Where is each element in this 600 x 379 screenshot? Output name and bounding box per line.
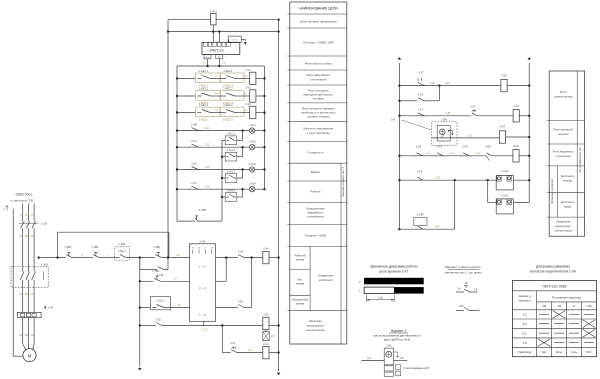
svg-text:Положение рукоятки: Положение рукоятки xyxy=(552,296,581,300)
wire block2 to rail xyxy=(513,202,529,204)
svg-text:Звуковая: Звуковая xyxy=(309,319,322,323)
rung5 wire xyxy=(399,155,483,157)
svg-text:1-КК: 1-КК xyxy=(48,306,54,310)
svg-text:назад: назад xyxy=(564,206,572,209)
svg-text:Цепи питания напряжения: Цепи питания напряжения xyxy=(300,20,337,24)
svg-text:Готовность: Готовность xyxy=(307,151,323,155)
wire control tap riser xyxy=(57,232,59,257)
contact 1-SQ1.1 xyxy=(117,255,128,258)
table2 narrow right column xyxy=(576,71,578,236)
boxed contact SA2 branch xyxy=(222,156,225,158)
svg-text:2-К1: 2-К1 xyxy=(191,139,197,143)
relay coil 2-K6 xyxy=(501,79,507,91)
svg-text:2-К4: 2-К4 xyxy=(238,249,244,253)
impulse contact 2-KT1 xyxy=(415,83,427,86)
table2 left rotated divider xyxy=(556,166,558,217)
svg-text:2-SQ3.2: 2-SQ3.2 xyxy=(223,118,234,122)
svg-text:2-К1: 2-К1 xyxy=(245,68,251,72)
svg-text:режим: режим xyxy=(296,258,305,262)
closure cell r3c4 cross xyxy=(583,329,596,337)
relay coil 2-K7 xyxy=(513,110,519,122)
selector contact 2-SB4 row xyxy=(177,220,193,222)
svg-text:2-НА: 2-НА xyxy=(263,342,269,346)
sensor output elbow with arrow xyxy=(449,130,453,132)
sensor unit 2-VK dashed box xyxy=(432,122,458,146)
wire xyxy=(164,257,190,259)
closure cell r2c3 dash xyxy=(569,323,579,325)
indicator lamp 1-HL2 xyxy=(250,145,255,150)
svg-text:2-21: 2-21 xyxy=(430,83,435,85)
switch 1-SQ1 dashed box xyxy=(115,247,130,261)
svg-text:2-SА1.1: 2-SА1.1 xyxy=(227,133,236,136)
svg-text:2-ВК: 2-ВК xyxy=(441,118,447,122)
svg-text:в цепи дробилки: в цепи дробилки xyxy=(307,131,330,135)
svg-text:2-SВ7: 2-SВ7 xyxy=(417,213,425,217)
svg-text:2-SД1.2: 2-SД1.2 xyxy=(156,300,165,303)
wire to coil 2-K1 xyxy=(238,77,250,79)
wire lamp to rail xyxy=(255,169,265,171)
wire top bus L2 xyxy=(168,31,279,33)
svg-text:1-HL2: 1-HL2 xyxy=(249,140,257,144)
node right-top junctions xyxy=(277,19,279,21)
svg-text:ПКУЗ-12С-2033: ПКУЗ-12С-2033 xyxy=(542,285,566,289)
contact 2-K8 c xyxy=(460,153,472,156)
svg-text:7-8: 7-8 xyxy=(522,341,527,345)
lamp rung 2 wire xyxy=(177,146,250,148)
contact 2-К2 xyxy=(188,167,201,170)
wire coil to rail xyxy=(256,77,265,79)
timing bar 2 filled segment xyxy=(394,287,423,294)
rung6 wire xyxy=(399,179,496,181)
svg-text:1-HL4: 1-HL4 xyxy=(249,182,257,186)
wire xyxy=(74,257,90,259)
svg-text:отключения: отключения xyxy=(310,78,327,82)
svg-text:2-К7: 2-К7 xyxy=(513,104,519,108)
svg-text:выкл. ДКПу-сс-4х-В: выкл. ДКПу-сс-4х-В xyxy=(384,338,410,342)
closure cell r4c3 dash xyxy=(569,342,579,344)
closure cell r1c3 dash xyxy=(569,313,579,315)
svg-text:Работа: Работа xyxy=(310,190,320,194)
terminal marker xyxy=(44,306,46,308)
svg-text:2-SА1.4: 2-SА1.4 xyxy=(227,189,236,192)
contact 2-K4 aux xyxy=(235,255,246,258)
svg-text:Питание ~220В: Питание ~220В xyxy=(305,234,326,238)
svg-text:3 — 4: 3 — 4 xyxy=(199,286,206,290)
bottom row branch wire xyxy=(221,326,223,353)
svg-text:2-КЕ1.1: 2-КЕ1.1 xyxy=(199,69,209,73)
svg-text:Щиток управления №2: Щиток управления №2 xyxy=(579,147,582,173)
wire branch up to rung xyxy=(242,189,244,197)
lamp rung 4 wire xyxy=(177,188,250,190)
svg-text:2-К5: 2-К5 xyxy=(263,313,269,317)
variant1 contact b xyxy=(456,310,462,312)
svg-text:~: ~ xyxy=(29,358,31,362)
wire branch up to rung xyxy=(242,170,244,179)
svg-text:реле времени 2-КТ: реле времени 2-КТ xyxy=(379,269,408,273)
PE wire to motor frame xyxy=(12,209,14,357)
wire up to coil row xyxy=(251,258,253,308)
fuse 2-FU xyxy=(211,14,217,25)
sounder block 1-HA2 xyxy=(496,199,513,214)
arrow up right rail xyxy=(527,57,531,60)
svg-text:2-К5: 2-К5 xyxy=(155,317,161,321)
closure cell r2c2 dash xyxy=(554,323,564,325)
wires power unit to ladder bus xyxy=(207,59,209,66)
relay coil 2-K5 row4 xyxy=(263,317,269,329)
svg-text:Дробление: Дробление xyxy=(561,200,575,204)
thermal relay 1-KK xyxy=(18,312,42,317)
arrow up left rail xyxy=(398,57,402,60)
svg-text:2-КТ: 2-КТ xyxy=(418,71,424,75)
phase wire B xyxy=(27,204,29,222)
wire xyxy=(101,257,117,259)
contact 2-K7 xyxy=(415,113,427,116)
timing bar 2 outline segment xyxy=(364,287,394,294)
svg-text:1-SВ1: 1-SВ1 xyxy=(64,245,72,249)
svg-text:2-К2: 2-К2 xyxy=(191,162,197,166)
terminal tick mark left xyxy=(6,206,9,208)
wire to coil 2-K2 xyxy=(238,95,250,97)
sounder block 1-HA1 xyxy=(496,176,513,190)
svg-text:2-SА1.2: 2-SА1.2 xyxy=(227,149,236,152)
svg-text:Питание ~220В/~24В: Питание ~220В/~24В xyxy=(303,41,333,45)
svg-text:3-4: 3-4 xyxy=(522,322,527,326)
svg-text:Управ.(вид): Управ.(вид) xyxy=(517,350,531,354)
table1 regime column divider xyxy=(309,247,311,311)
contactor 1-KM dashed enclosure xyxy=(11,267,48,288)
pushbutton 2-SB4 xyxy=(193,218,199,221)
svg-text:2-SA: 2-SA xyxy=(199,239,205,243)
svg-text:2-14: 2-14 xyxy=(205,187,210,189)
ladder top bus xyxy=(177,65,265,67)
selector out row3 wire xyxy=(216,307,236,309)
svg-text:~24В/1,2А: ~24В/1,2А xyxy=(208,48,225,52)
svg-text:2-В: 2-В xyxy=(391,118,395,122)
circuit breaker 1-QF xyxy=(21,221,25,228)
closure cell r1c1 dash xyxy=(539,313,549,315)
closure cell r4c4 dash xyxy=(584,342,594,344)
phase wire A xyxy=(22,204,24,222)
svg-text:2-35: 2-35 xyxy=(475,153,480,155)
svg-text:от автомата "1Ф": от автомата "1Ф" xyxy=(10,199,34,203)
svg-text:Временная диаграмма работы: Временная диаграмма работы xyxy=(370,265,418,269)
switch housing 2-SQ1.1 xyxy=(196,73,221,83)
table1 narrow right column xyxy=(340,163,342,344)
svg-text:режим: режим xyxy=(296,282,305,286)
wire to coil 2-K4 xyxy=(246,257,263,259)
svg-text:Реле сброса схемы: Реле сброса схемы xyxy=(305,62,332,66)
motor M xyxy=(23,349,36,362)
rung7 wire xyxy=(399,228,454,230)
svg-text:2-11: 2-11 xyxy=(205,128,210,130)
row3 boxed switch 2-SQ6 xyxy=(140,307,151,309)
selector common stub xyxy=(203,321,205,325)
closure cell r3c3 dash xyxy=(569,332,579,334)
wire to rail xyxy=(507,85,529,87)
svg-text:1-КМ: 1-КМ xyxy=(191,123,198,127)
rung2 wire xyxy=(399,100,414,102)
button 2-SB2 xyxy=(151,278,163,281)
svg-text:2-К6: 2-К6 xyxy=(417,169,423,173)
svg-text:2-SВ2: 2-SВ2 xyxy=(152,269,160,273)
svg-text:2-15: 2-15 xyxy=(203,330,208,332)
svg-text:7 — 8: 7 — 8 xyxy=(199,313,206,317)
closure cell r4c2 dash xyxy=(554,342,564,344)
closure cell r2c1 dash xyxy=(539,323,549,325)
svg-text:2-SВ1: 2-SВ1 xyxy=(153,245,161,249)
leader line to sensor xyxy=(402,120,432,130)
wire lamp to rail xyxy=(255,146,265,148)
wire drops to power unit xyxy=(212,32,214,43)
right rail upper xyxy=(264,66,266,189)
closure cell r2c4 cross xyxy=(583,320,596,328)
svg-text:2-КЕ1.2: 2-КЕ1.2 xyxy=(199,86,209,90)
svg-text:2-К3: 2-К3 xyxy=(191,181,197,185)
svg-text:Диаграмма замыкания: Диаграмма замыкания xyxy=(536,265,570,269)
svg-text:отключения: отключения xyxy=(556,154,572,158)
resistor-bell element xyxy=(263,332,269,341)
svg-text:2-К6: 2-К6 xyxy=(501,74,507,78)
boxed contact SA4 branch xyxy=(222,196,225,198)
svg-text:2-КЕ1.3: 2-КЕ1.3 xyxy=(199,103,209,107)
svg-text:Управление дробилкой: Управление дробилкой xyxy=(551,178,554,204)
svg-text:2-К4: 2-К4 xyxy=(263,247,269,251)
timing bar 1 filled xyxy=(364,278,424,285)
wire to earth xyxy=(241,38,245,40)
svg-text:А: А xyxy=(20,213,22,217)
switch housing 2-SQ2.1 xyxy=(196,91,221,101)
svg-text:1-SД1.1: 1-SД1.1 xyxy=(118,251,127,253)
wire up join rung1 xyxy=(438,86,440,101)
svg-text:Местное напряжение: Местное напряжение xyxy=(303,127,333,131)
boxed contact SA3 branch xyxy=(222,177,225,179)
svg-text:Взрыв: Взрыв xyxy=(311,170,320,174)
svg-text:вперед: вперед xyxy=(563,180,572,183)
wire lamp to rail xyxy=(255,188,265,190)
svg-text:2-КТ: 2-КТ xyxy=(470,105,476,109)
svg-text:Реле: Реле xyxy=(556,350,563,354)
svg-text:2-13: 2-13 xyxy=(205,167,210,169)
limit switch row 2 wire xyxy=(177,95,196,97)
vertical supply line to lower section xyxy=(278,20,280,372)
svg-text:2-К8: 2-К8 xyxy=(513,144,519,148)
svg-text:2-ВК: 2-ВК xyxy=(386,345,392,348)
indicator lamp 1-HL4 xyxy=(250,187,255,192)
svg-text:Реле аварийного: Реле аварийного xyxy=(306,73,330,77)
wire left drop long xyxy=(167,20,169,258)
ladder2 left rail xyxy=(398,63,400,229)
svg-text:2-КЕ2.1: 2-КЕ2.1 xyxy=(223,69,233,73)
svg-text:сигнала: сигнала xyxy=(313,97,324,101)
wire branch up to rung xyxy=(242,147,244,157)
svg-text:дробилкой: дробилкой xyxy=(319,278,333,282)
terminal box 2-XT xyxy=(228,40,230,43)
svg-text:2-Б: 2-Б xyxy=(367,357,371,360)
svg-text:Аварийная: Аварийная xyxy=(556,220,571,224)
svg-text:Вариант 2: Вариант 2 xyxy=(391,329,406,333)
ladder2 right rail xyxy=(528,63,530,203)
closure cell r3c2 dash xyxy=(554,332,564,334)
svg-text:Управление: Управление xyxy=(318,274,334,278)
contact 2-K6 seal xyxy=(415,98,427,101)
wire lamp to rail xyxy=(255,130,265,132)
arrow down lower end xyxy=(277,373,281,376)
wire fuse stub down xyxy=(212,25,214,32)
svg-text:транспортера: транспортера xyxy=(554,95,573,99)
closure table grid lines xyxy=(536,291,538,357)
svg-text:Вариант 1 (вместо дробл.: Вариант 1 (вместо дробл. xyxy=(446,265,482,269)
svg-text:Реле: Реле xyxy=(560,90,567,94)
contact 2-K5 xyxy=(153,323,164,326)
svg-text:1-SВ2: 1-SВ2 xyxy=(91,245,99,249)
row2 wire xyxy=(140,280,151,282)
svg-text:сигнализация: сигнализация xyxy=(554,229,572,233)
svg-text:НАИМЕНОВАНИЕ ЦЕПИ: НАИМЕНОВАНИЕ ЦЕПИ xyxy=(299,7,338,11)
svg-text:2-К6: 2-К6 xyxy=(418,93,424,97)
svg-text:контактов переключателя 2-SA: контактов переключателя 2-SA xyxy=(530,269,577,273)
svg-text:5-6: 5-6 xyxy=(522,331,527,335)
wire down from rung6 xyxy=(454,180,456,229)
relay coil 2-K2 xyxy=(250,90,256,102)
closure cell r4c1 cross xyxy=(538,339,551,347)
svg-text:2-К6: 2-К6 xyxy=(436,145,442,149)
svg-text:С: С xyxy=(31,213,33,217)
svg-text:1-НА2: 1-НА2 xyxy=(501,193,509,197)
svg-text:-90: -90 xyxy=(542,304,547,308)
closure table frame xyxy=(512,281,596,357)
variant2 earth arrow xyxy=(394,351,398,353)
control tap junction on phase C xyxy=(38,256,40,258)
boxed contact SA1 branch xyxy=(222,139,225,141)
svg-text:1-НА1: 1-НА1 xyxy=(501,169,509,173)
sensor symbol xyxy=(440,129,446,135)
switch housing 2-SQ1.2 xyxy=(221,73,245,83)
svg-text:2-27: 2-27 xyxy=(468,135,473,137)
wire horizontal to ladder xyxy=(58,231,169,233)
svg-text:+45: +45 xyxy=(586,304,591,308)
svg-text:Юст: Юст xyxy=(586,350,592,354)
sub-branch bus xyxy=(221,140,223,221)
contact 2-K5 aux xyxy=(235,305,246,308)
svg-text:2-ВК: 2-ВК xyxy=(458,305,464,308)
svg-text:2-КТ: 2-КТ xyxy=(500,124,506,128)
table2 outer frame xyxy=(549,71,584,236)
svg-text:1-SД1: 1-SД1 xyxy=(118,242,126,246)
time contact 2-KT rung3 xyxy=(469,113,478,116)
switch housing 2-SQ2.2 xyxy=(221,91,245,101)
lamp rung 3 wire xyxy=(177,169,250,171)
svg-text:2-К3: 2-К3 xyxy=(245,102,251,106)
svg-text:2-23: 2-23 xyxy=(445,83,450,85)
svg-text:1,5с: 1,5с xyxy=(378,296,384,300)
svg-text:2-12: 2-12 xyxy=(205,145,210,147)
svg-text:2-КЕ2.2: 2-КЕ2.2 xyxy=(223,86,233,90)
svg-text:2-Б: 2-Б xyxy=(457,287,461,290)
svg-text:Чис: Чис xyxy=(542,350,547,354)
phase wires to thermal relay xyxy=(22,286,24,312)
feed wire to block 1-HA2 xyxy=(487,180,489,202)
limit switch row 3 wire xyxy=(177,112,196,114)
svg-text:Реле аварийного: Реле аварийного xyxy=(553,150,575,154)
relay coil 2-K1 xyxy=(250,72,256,84)
svg-text:2-17: 2-17 xyxy=(248,350,253,352)
relay coil 2-K4 xyxy=(263,251,269,263)
svg-text:2-КВ: 2-КВ xyxy=(485,145,491,149)
wire row3 to selector xyxy=(167,307,190,309)
wire coil to right rail xyxy=(269,257,279,259)
indicator lamp 1-HL3 xyxy=(250,167,255,172)
contact 2-К3 xyxy=(188,186,201,189)
variant2 terminal boxes xyxy=(384,366,393,371)
timing dimension line xyxy=(365,295,367,302)
indicator lamp 1-HL1 xyxy=(250,128,255,133)
contactor main contacts xyxy=(22,267,24,272)
rung3 wire xyxy=(399,115,469,117)
wire top bus L1 xyxy=(168,19,211,21)
lamp rung 1 wire xyxy=(177,130,250,132)
svg-text:контактных поз. 1, см. прим.): контактных поз. 1, см. прим.) xyxy=(445,270,483,274)
power supply unit ~24V 1.2A xyxy=(202,42,240,54)
variant2 sensor box xyxy=(384,348,393,365)
relay coil 2-K3 xyxy=(250,106,256,118)
svg-text:контакты: контакты xyxy=(518,299,530,303)
svg-text:2-В: 2-В xyxy=(474,288,478,291)
svg-text:2-31: 2-31 xyxy=(426,153,431,155)
changeover contact 2-KV xyxy=(484,153,493,156)
closure cell r3c1 dash xyxy=(539,332,549,334)
wire coil to rail xyxy=(256,112,265,114)
svg-text:-45: -45 xyxy=(557,304,562,308)
svg-text:предупредит.: предупредит. xyxy=(555,224,572,228)
svg-text:Сеть: Сеть xyxy=(571,350,578,354)
switch housing 2-SQ3.1 xyxy=(196,107,221,117)
phase wires to motor xyxy=(22,318,24,344)
contact 2-К1 xyxy=(188,144,201,147)
wire coil to rail xyxy=(256,95,265,97)
svg-text:1-HL1: 1-HL1 xyxy=(249,123,257,127)
closure table header row line xyxy=(512,290,596,292)
svg-text:2-FU: 2-FU xyxy=(210,9,217,13)
svg-text:2-33: 2-33 xyxy=(450,153,455,155)
svg-text:~380В 50Гц: ~380В 50Гц xyxy=(14,193,32,197)
variant2 wires xyxy=(361,360,384,362)
variant1 contact a xyxy=(456,291,462,293)
phase wire C xyxy=(33,204,35,222)
svg-text:2-ХТ: 2-ХТ xyxy=(232,40,237,42)
svg-text:предупредит.: предупредит. xyxy=(306,324,325,328)
svg-text:Звуковая сигнализ. щит 1: Звуковая сигнализ. щит 1 xyxy=(342,167,345,197)
svg-text:2-К6: 2-К6 xyxy=(238,299,244,303)
svg-text:Секции и: Секции и xyxy=(518,294,531,298)
svg-text:2-SВ4: 2-SВ4 xyxy=(199,208,207,212)
svg-text:сигнала станции: сигнала станции xyxy=(307,115,330,119)
wire xyxy=(239,352,263,354)
stop button 1-SB1 xyxy=(63,255,74,258)
svg-text:К реле времени 2-КТ: К реле времени 2-КТ xyxy=(404,366,430,370)
left rail xyxy=(176,66,178,221)
bus vertical lower-left xyxy=(139,258,141,367)
contact 2-K8 a xyxy=(413,153,425,156)
power unit output terminals xyxy=(204,55,211,59)
svg-text:2-К9: 2-К9 xyxy=(462,145,468,149)
wire to rail xyxy=(269,352,279,354)
svg-text:воронки: воронки xyxy=(558,132,569,136)
svg-text:В: В xyxy=(26,213,28,217)
wire branch up to rung xyxy=(242,131,244,141)
contact 2-K8 b xyxy=(434,153,446,156)
svg-text:2-В: 2-В xyxy=(400,357,404,360)
svg-text:2-39: 2-39 xyxy=(435,227,440,229)
